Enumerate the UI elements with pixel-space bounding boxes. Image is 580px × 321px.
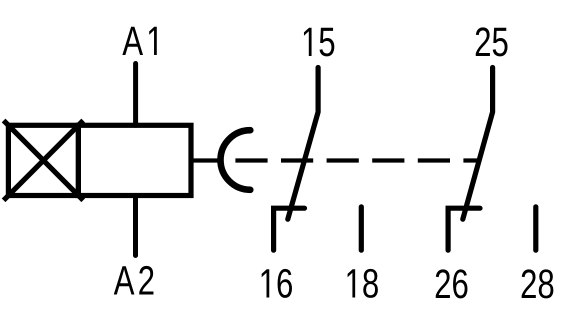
terminal label 25: [476, 27, 508, 56]
wire coil to delay symbol: [191, 158, 222, 162]
NC contact seat terminal 16: [274, 208, 305, 250]
terminal label 15: [304, 28, 334, 57]
coil crossed box (X symbol): [4, 121, 84, 201]
terminal label 26: [436, 269, 468, 298]
off-delay half-moon symbol: [221, 130, 251, 190]
terminal label 18: [348, 269, 378, 298]
wire terminal 25 lead with changeover contact arm: [463, 68, 493, 220]
terminal label 16: [262, 269, 292, 298]
terminal label A1: [122, 27, 156, 55]
NO contact stub terminal 28: [533, 207, 538, 250]
wire terminal 15 lead with changeover contact arm: [288, 68, 318, 220]
NC contact seat terminal 26: [448, 208, 480, 250]
coil body rectangle: [78, 125, 191, 195]
terminal label 28: [522, 269, 554, 298]
terminal label A2: [114, 266, 154, 295]
wire A2 lead: [133, 196, 138, 256]
wire A1 lead: [133, 64, 138, 126]
mechanical link (dashed): [235, 158, 481, 162]
NO contact stub terminal 18: [359, 207, 364, 250]
